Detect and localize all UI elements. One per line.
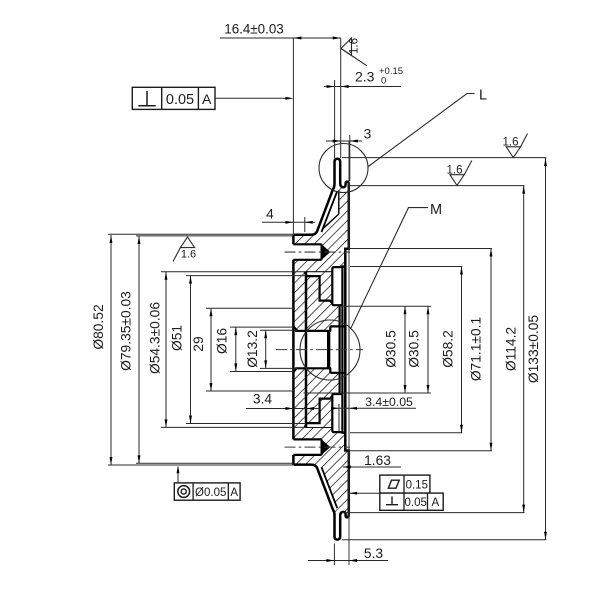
svg-text:A: A — [431, 497, 439, 509]
svg-text:1.6: 1.6 — [181, 249, 196, 261]
svg-text:1.6: 1.6 — [447, 164, 463, 176]
svg-text:3.4: 3.4 — [253, 392, 273, 407]
svg-text:Ø133±0.05: Ø133±0.05 — [526, 315, 541, 384]
svg-text:Ø13.2: Ø13.2 — [245, 330, 260, 368]
svg-text:M: M — [430, 202, 442, 218]
svg-text:Ø71.1±0.1: Ø71.1±0.1 — [469, 317, 484, 381]
svg-text:0.15: 0.15 — [406, 479, 428, 491]
svg-text:Ø30.5: Ø30.5 — [407, 330, 422, 368]
svg-text:L: L — [479, 88, 487, 104]
svg-text:1.6: 1.6 — [503, 136, 519, 148]
svg-text:3.4±0.05: 3.4±0.05 — [365, 395, 413, 409]
svg-text:A: A — [230, 487, 238, 499]
svg-text:A: A — [202, 91, 212, 107]
svg-text:Ø54.3±0.06: Ø54.3±0.06 — [148, 302, 163, 374]
svg-text:0: 0 — [381, 76, 386, 87]
svg-text:2.3: 2.3 — [355, 69, 375, 85]
svg-text:0.05: 0.05 — [405, 497, 427, 509]
svg-text:29: 29 — [191, 336, 206, 352]
svg-text:4: 4 — [266, 207, 274, 222]
svg-text:Ø0.05: Ø0.05 — [195, 487, 226, 499]
svg-text:1.63: 1.63 — [364, 453, 391, 468]
svg-text:Ø30.5: Ø30.5 — [383, 330, 398, 368]
svg-text:Ø16: Ø16 — [215, 328, 230, 354]
svg-text:Ø79.35±0.03: Ø79.35±0.03 — [119, 291, 134, 371]
svg-text:3: 3 — [364, 127, 372, 142]
svg-text:0.05: 0.05 — [166, 92, 194, 108]
svg-text:Ø80.52: Ø80.52 — [91, 304, 106, 349]
svg-text:16.4±0.03: 16.4±0.03 — [224, 22, 283, 37]
svg-text:5.3: 5.3 — [364, 546, 384, 561]
svg-text:Ø114.2: Ø114.2 — [504, 327, 519, 371]
svg-text:1.6: 1.6 — [349, 38, 361, 54]
svg-text:Ø51: Ø51 — [170, 325, 185, 351]
svg-text:Ø58.2: Ø58.2 — [441, 330, 456, 368]
